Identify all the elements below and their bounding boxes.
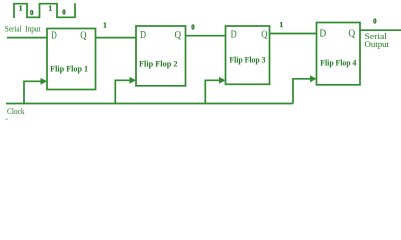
svg-text:Flip Flop 4: Flip Flop 4 bbox=[320, 59, 356, 68]
svg-text:Flip Flop 1: Flip Flop 1 bbox=[50, 64, 88, 73]
svg-text:D: D bbox=[140, 29, 146, 41]
svg-text:1: 1 bbox=[49, 6, 53, 13]
svg-text:0: 0 bbox=[373, 19, 377, 26]
svg-text:Serial Input: Serial Input bbox=[5, 24, 41, 33]
svg-text:0: 0 bbox=[30, 10, 34, 17]
svg-text:1: 1 bbox=[280, 22, 284, 29]
svg-text:Clock: Clock bbox=[7, 107, 25, 116]
svg-text:Q: Q bbox=[80, 30, 86, 42]
svg-text:Flip Flop 3: Flip Flop 3 bbox=[229, 55, 265, 64]
svg-text:0: 0 bbox=[62, 10, 66, 17]
svg-text:1: 1 bbox=[103, 23, 107, 30]
svg-text:Q: Q bbox=[348, 27, 355, 39]
svg-text:Output: Output bbox=[365, 40, 390, 49]
svg-text:D: D bbox=[319, 27, 326, 39]
svg-text:1: 1 bbox=[19, 6, 23, 13]
svg-text:D: D bbox=[231, 29, 237, 41]
svg-text:Q: Q bbox=[175, 29, 182, 41]
svg-text:0: 0 bbox=[191, 24, 195, 31]
svg-text:D: D bbox=[51, 30, 57, 42]
svg-text:Flip Flop 2: Flip Flop 2 bbox=[139, 60, 178, 69]
svg-text:Q: Q bbox=[261, 29, 267, 41]
